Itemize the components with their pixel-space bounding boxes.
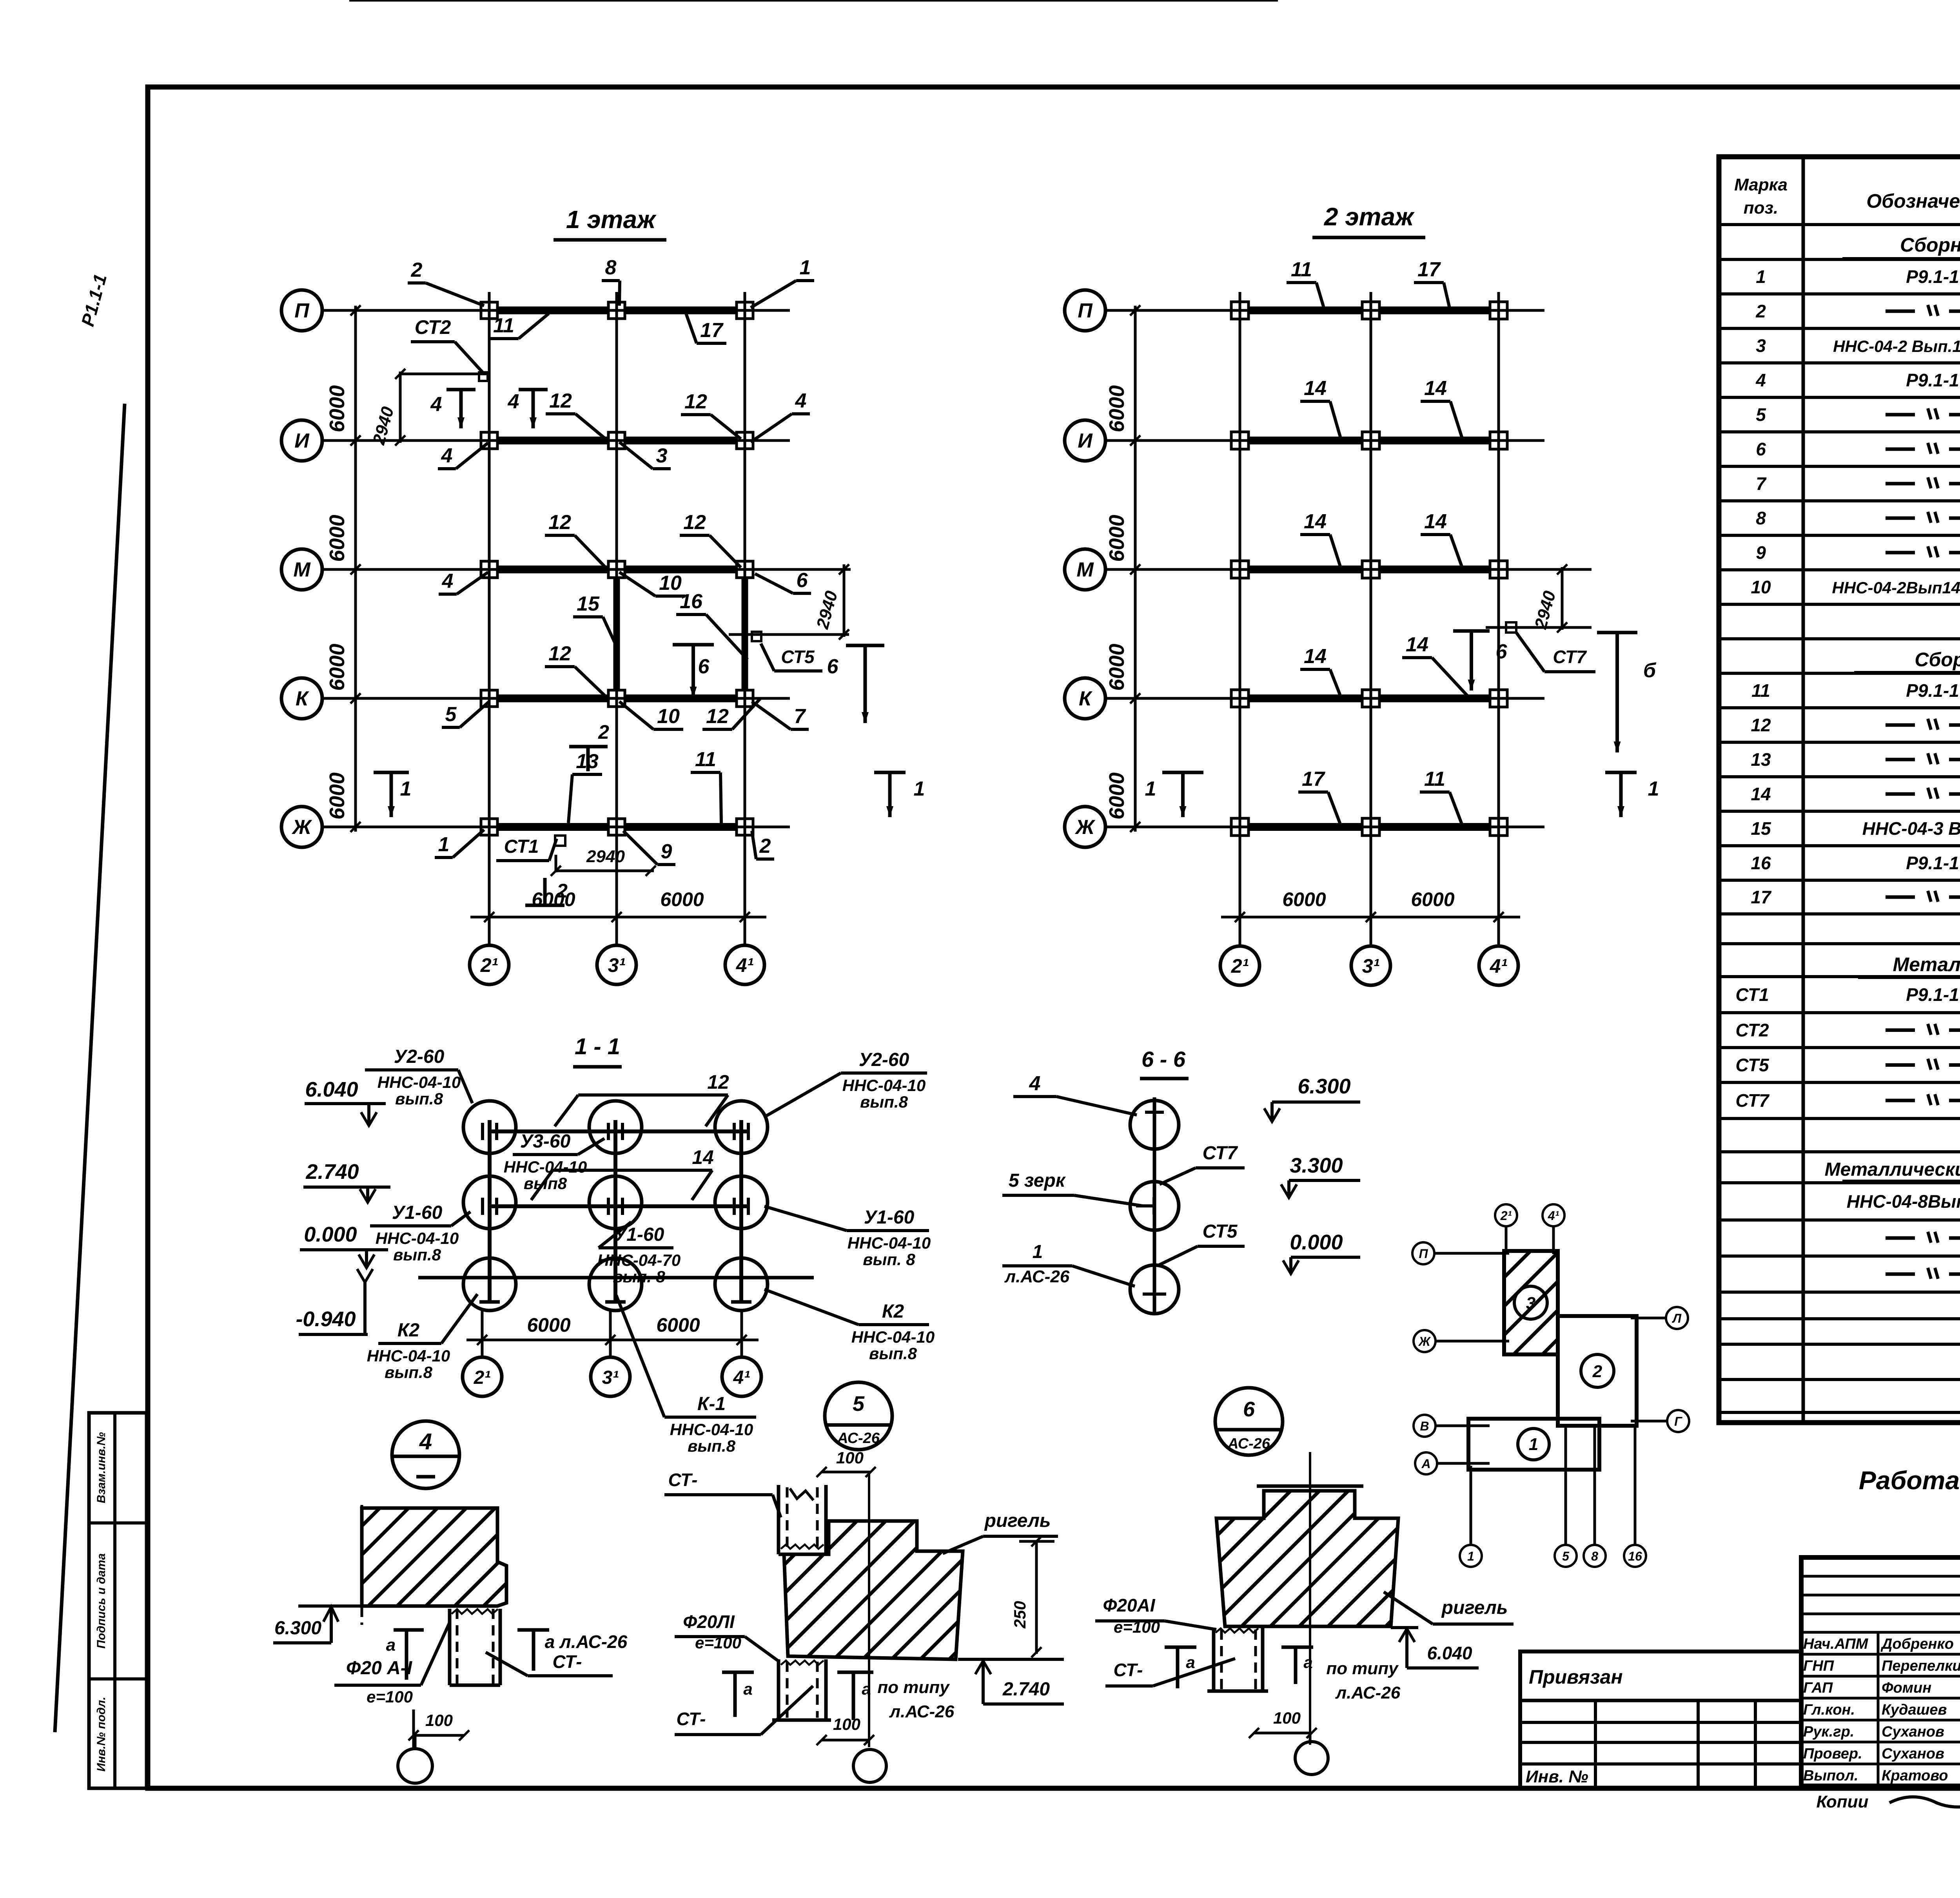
- svg-text:6000: 6000: [325, 644, 349, 691]
- beam mid level 1-1: [490, 1204, 748, 1208]
- svg-text:Инв.№ подл.: Инв.№ подл.: [95, 1697, 108, 1771]
- svg-text:11: 11: [695, 748, 716, 771]
- svg-text:1: 1: [1529, 1435, 1538, 1454]
- svg-text:15: 15: [1751, 818, 1771, 839]
- svg-text:12: 12: [1751, 715, 1771, 735]
- axis line П plan1: [322, 309, 790, 312]
- svg-text:ННС-04-3 Вып.7: ННС-04-3 Вып.7: [1862, 818, 1960, 839]
- svg-text:12: 12: [684, 390, 707, 413]
- svg-text:СТ2: СТ2: [1735, 1020, 1769, 1041]
- svg-text:Ж: Ж: [291, 816, 312, 839]
- svg-text:У3-60: У3-60: [520, 1131, 571, 1152]
- beam line plan1: [489, 823, 745, 831]
- table row line: [1719, 603, 1960, 606]
- axis circle П plan1: [281, 290, 322, 331]
- svg-text:Обозначение: Обозначение: [1866, 190, 1960, 212]
- svg-text:Добренко: Добренко: [1880, 1636, 1954, 1652]
- svg-text:10: 10: [659, 572, 682, 595]
- svg-text:2: 2: [598, 721, 609, 743]
- key plan axis А: [1415, 1452, 1437, 1474]
- title block names row: [1801, 1763, 1960, 1766]
- svg-text:Р9.1-1: Р9.1-1: [1906, 853, 1959, 873]
- svg-text:Взам.инв.№: Взам.инв.№: [95, 1432, 108, 1503]
- svg-text:ННС-04-10: ННС-04-10: [851, 1328, 935, 1346]
- svg-text:Нач.АПМ: Нач.АПМ: [1803, 1636, 1869, 1652]
- stoika ST7 square: [1506, 622, 1516, 633]
- table row line: [1719, 258, 1960, 261]
- svg-text:В: В: [1420, 1419, 1429, 1433]
- svg-text:У2-60: У2-60: [859, 1050, 909, 1070]
- table column line: [1802, 157, 1805, 1423]
- column plan1: [608, 561, 625, 578]
- svg-text:вып.8: вып.8: [385, 1363, 433, 1381]
- beam line plan1: [489, 437, 745, 444]
- svg-text:по типу: по типу: [877, 1678, 950, 1697]
- detail 5 bubble: [825, 1382, 892, 1450]
- beam line plan1: [489, 694, 745, 702]
- table row line: [1719, 706, 1960, 709]
- column plan1: [737, 690, 753, 707]
- beam 14 outline 1-1: [553, 1169, 712, 1172]
- svg-text:3¹: 3¹: [1362, 955, 1380, 977]
- title block names row: [1801, 1719, 1960, 1722]
- column plan2: [1490, 690, 1507, 707]
- svg-text:8: 8: [605, 256, 617, 279]
- table row line: [1719, 1254, 1960, 1258]
- svg-text:100: 100: [833, 1715, 860, 1733]
- svg-text:вып.8: вып.8: [395, 1089, 443, 1108]
- svg-text:14: 14: [1424, 377, 1447, 400]
- svg-text:11: 11: [1424, 768, 1445, 790]
- section cut mark 4: [519, 388, 548, 392]
- svg-text:Рук.гр.: Рук.гр.: [1803, 1724, 1854, 1740]
- svg-text:11: 11: [1291, 258, 1312, 281]
- svg-text:6 - 6: 6 - 6: [1142, 1047, 1186, 1071]
- svg-text:ННС-04-70: ННС-04-70: [597, 1251, 681, 1269]
- svg-text:6: 6: [827, 655, 839, 678]
- key plan axis 8: [1584, 1545, 1606, 1567]
- svg-text:а: а: [743, 1680, 752, 1698]
- key plan axis Ж: [1414, 1330, 1436, 1352]
- title block names row: [1801, 1575, 1960, 1578]
- svg-text:4: 4: [795, 390, 807, 412]
- column plan1: [608, 690, 625, 707]
- key plan block 2: [1558, 1316, 1637, 1426]
- svg-text:а: а: [862, 1680, 871, 1698]
- beam 12 outline 1-1: [578, 1093, 728, 1097]
- column section 1-1: [488, 1120, 492, 1302]
- svg-text:6000: 6000: [527, 1314, 570, 1336]
- svg-text:вып. 8: вып. 8: [613, 1267, 665, 1286]
- svg-text:13: 13: [1751, 749, 1771, 770]
- svg-text:1 - 1: 1 - 1: [575, 1034, 620, 1059]
- detail 6 bubble: [1215, 1388, 1283, 1455]
- axis line И plan2: [1105, 439, 1544, 442]
- svg-text:вып. 8: вып. 8: [863, 1250, 915, 1269]
- table row line: [1719, 499, 1960, 502]
- axis circle bottom plan2: [1220, 946, 1259, 985]
- svg-text:10: 10: [657, 705, 680, 728]
- svg-text:Привязан: Привязан: [1529, 1666, 1623, 1688]
- vertical beam 16 plan1: [742, 569, 748, 698]
- column axis line plan1: [615, 292, 618, 945]
- svg-text:12: 12: [707, 1071, 729, 1093]
- svg-text:Г: Г: [1674, 1414, 1682, 1428]
- svg-text:1: 1: [1145, 778, 1156, 800]
- column stub detail 6: [1212, 1628, 1216, 1691]
- axis circle bottom plan1: [597, 945, 636, 984]
- svg-text:12: 12: [548, 511, 571, 534]
- T mark a left detail 5: [722, 1671, 754, 1674]
- svg-text:6: 6: [698, 655, 710, 678]
- svg-text:6: 6: [1243, 1398, 1255, 1421]
- section cut mark б: [1597, 631, 1637, 634]
- svg-text:ННС-04-10: ННС-04-10: [376, 1229, 459, 1247]
- svg-text:5: 5: [1756, 404, 1766, 425]
- T mark a po tipu detail 5: [837, 1671, 873, 1674]
- svg-text:ННС-04-10: ННС-04-10: [670, 1420, 753, 1439]
- table row line: [1719, 327, 1960, 330]
- axis line Ж plan2: [1105, 826, 1544, 828]
- column plan1: [481, 819, 497, 835]
- section cut mark 1: [874, 771, 906, 774]
- svg-text:СТ-: СТ-: [1114, 1660, 1143, 1680]
- key plan block 3: [1504, 1251, 1558, 1354]
- svg-text:1: 1: [1033, 1242, 1043, 1262]
- svg-text:СТ1: СТ1: [1735, 984, 1769, 1005]
- dim line bottom plan1: [470, 916, 766, 919]
- table row line: [1719, 1218, 1960, 1222]
- table row line: [1719, 568, 1960, 571]
- svg-text:К2: К2: [397, 1320, 420, 1341]
- svg-text:4¹: 4¹: [1490, 955, 1508, 977]
- svg-text:4: 4: [441, 444, 453, 467]
- svg-text:Ф20ЛI: Ф20ЛI: [683, 1612, 735, 1632]
- svg-text:6000: 6000: [325, 772, 349, 819]
- column plan1: [737, 561, 753, 578]
- axis circle bottom plan1: [470, 945, 509, 984]
- svg-text:14: 14: [1304, 377, 1327, 400]
- beam line plan1: [489, 306, 745, 314]
- axis line М plan1: [322, 568, 851, 571]
- svg-text:л.АС-26: л.АС-26: [889, 1702, 955, 1721]
- T mark a.l.AS-26 detail 4: [517, 1628, 549, 1632]
- joint circle 6-6: [1130, 1182, 1179, 1230]
- dim 2940 top-left: [400, 373, 488, 375]
- axis circle bottom plan2: [1351, 946, 1390, 985]
- axis circle Ж plan2: [1065, 807, 1105, 847]
- column plan1: [608, 432, 625, 449]
- key plan axis 2&#185;: [1495, 1204, 1517, 1226]
- svg-text:6000: 6000: [325, 385, 349, 432]
- svg-text:ННС-04-10: ННС-04-10: [842, 1076, 926, 1095]
- svg-text:вып.8: вып.8: [688, 1437, 736, 1455]
- svg-text:3.300: 3.300: [1290, 1154, 1343, 1177]
- svg-text:б: б: [1643, 659, 1657, 682]
- joint circle 1-1: [715, 1101, 768, 1153]
- joint circle 1-1: [589, 1258, 642, 1311]
- key plan axis 4&#185;: [1543, 1204, 1564, 1226]
- axis circle М plan2: [1065, 549, 1105, 590]
- table row line: [1719, 292, 1960, 295]
- stamp boxes bottom-left: [89, 1413, 147, 1788]
- detail 6 rigel concrete: [1257, 1485, 1363, 1488]
- svg-text:2 этаж: 2 этаж: [1324, 203, 1415, 231]
- table row line: [1719, 912, 1960, 915]
- svg-text:вып8: вып8: [524, 1174, 567, 1193]
- svg-text:СТ5: СТ5: [1735, 1055, 1769, 1075]
- svg-text:4¹: 4¹: [736, 954, 754, 976]
- dim line vertical plan1: [354, 306, 357, 832]
- dim 2940 near ST1: [555, 855, 557, 872]
- svg-text:250: 250: [1011, 1601, 1029, 1629]
- column stub top detail 5: [777, 1485, 780, 1554]
- svg-text:Инв. №: Инв. №: [1526, 1767, 1588, 1786]
- svg-text:СТ7: СТ7: [1203, 1143, 1238, 1164]
- column plan2: [1490, 561, 1507, 578]
- svg-text:2: 2: [1592, 1362, 1602, 1381]
- svg-text:П: П: [1078, 299, 1093, 322]
- column plan2: [1362, 690, 1379, 707]
- svg-text:Р9.1-1: Р9.1-1: [1906, 680, 1959, 701]
- svg-text:14: 14: [1406, 633, 1428, 656]
- svg-text:100: 100: [1273, 1709, 1301, 1727]
- svg-text:9: 9: [661, 840, 672, 863]
- svg-text:0.000: 0.000: [1290, 1231, 1343, 1254]
- svg-text:по типу: по типу: [1326, 1659, 1399, 1678]
- svg-text:Перепелкин: Перепелкин: [1882, 1658, 1960, 1674]
- beam line plan2: [1240, 694, 1499, 702]
- svg-text:17: 17: [1302, 768, 1325, 790]
- svg-text:3: 3: [1756, 335, 1766, 356]
- key plan axis П: [1412, 1242, 1434, 1264]
- column axis line plan2: [1239, 292, 1241, 945]
- svg-text:11: 11: [1751, 680, 1770, 701]
- svg-text:1: 1: [1756, 266, 1766, 287]
- title block names row: [1801, 1653, 1960, 1656]
- axis circle bottom plan1: [725, 945, 764, 984]
- stoika ST5 square: [752, 632, 761, 641]
- cut mark 2 upper: [569, 745, 608, 749]
- svg-text:АС-26: АС-26: [1227, 1436, 1270, 1452]
- beam line plan2: [1240, 823, 1499, 831]
- table row line: [1719, 844, 1960, 847]
- key plan axis 16: [1624, 1545, 1646, 1567]
- table row line: [1719, 430, 1960, 433]
- key plan axis 5: [1555, 1545, 1577, 1567]
- title block names row: [1801, 1631, 1960, 1634]
- svg-text:СТ5: СТ5: [1203, 1221, 1238, 1242]
- svg-text:4: 4: [442, 570, 454, 593]
- svg-text:6000: 6000: [1105, 385, 1129, 432]
- svg-text:АС-26: АС-26: [837, 1430, 880, 1447]
- svg-text:А: А: [1421, 1457, 1430, 1471]
- joint circle 1-1: [715, 1258, 768, 1311]
- svg-text:Р9.1-1: Р9.1-1: [1906, 266, 1959, 287]
- section cut mark 4: [446, 388, 475, 392]
- svg-text:2.740: 2.740: [1002, 1679, 1050, 1700]
- svg-text:3¹: 3¹: [608, 954, 626, 976]
- svg-text:1: 1: [800, 256, 811, 279]
- title block names col: [1877, 1632, 1880, 1786]
- axis circle М plan1: [281, 549, 322, 590]
- column plan2: [1490, 818, 1507, 836]
- table row line: [1719, 1343, 1960, 1346]
- svg-text:7: 7: [794, 705, 806, 728]
- svg-text:3: 3: [656, 444, 668, 467]
- cut mark 2 lower: [525, 904, 564, 907]
- table row line: [1719, 879, 1960, 882]
- key plan axis Г: [1667, 1410, 1689, 1432]
- column axis line plan2: [1497, 292, 1500, 945]
- privyazan block: [1520, 1651, 1801, 1788]
- svg-text:100: 100: [425, 1711, 453, 1729]
- table row line: [1719, 1291, 1960, 1294]
- svg-text:Л: Л: [1672, 1311, 1682, 1325]
- svg-text:4: 4: [1029, 1072, 1041, 1095]
- svg-text:К2: К2: [882, 1301, 904, 1322]
- svg-text:1: 1: [400, 778, 412, 800]
- vertical beam 15 plan1: [613, 569, 620, 698]
- table row line: [1719, 672, 1960, 675]
- section cut mark 6: [846, 644, 884, 647]
- svg-text:СТ-: СТ-: [553, 1651, 582, 1672]
- svg-text:5: 5: [1562, 1549, 1570, 1563]
- svg-text:4: 4: [1755, 370, 1766, 390]
- svg-text:1: 1: [1467, 1549, 1474, 1563]
- joint circle 6-6: [1130, 1100, 1179, 1149]
- table row line: [1719, 361, 1960, 364]
- specification table frame: [1719, 157, 1960, 1423]
- svg-text:12: 12: [548, 642, 571, 665]
- svg-text:СТ-: СТ-: [677, 1709, 706, 1729]
- svg-text:14: 14: [1424, 510, 1447, 533]
- svg-text:12: 12: [706, 705, 729, 728]
- column plan1: [608, 302, 625, 319]
- column section 6-6: [1153, 1097, 1156, 1315]
- column below detail 4: [448, 1609, 452, 1685]
- column plan2: [1362, 561, 1379, 578]
- table row line: [1719, 810, 1960, 813]
- detail 5 rigel concrete: [784, 1521, 963, 1659]
- ground line 1-1: [418, 1276, 814, 1280]
- key plan axis Л: [1666, 1307, 1688, 1329]
- svg-text:6: 6: [797, 569, 808, 592]
- svg-text:1 этаж: 1 этаж: [566, 205, 657, 234]
- joint circle 1-1: [589, 1101, 642, 1153]
- svg-text:8: 8: [1756, 508, 1766, 528]
- svg-text:ННС-04-10: ННС-04-10: [504, 1158, 587, 1176]
- svg-text:6000: 6000: [656, 1314, 700, 1336]
- T mark a po tipu detail 6: [1281, 1646, 1313, 1649]
- svg-text:6.300: 6.300: [274, 1618, 321, 1639]
- svg-text:6: 6: [1496, 640, 1508, 663]
- svg-text:а: а: [1186, 1653, 1195, 1671]
- section cut mark 1: [374, 771, 409, 774]
- bubble bottom detail 6: [1309, 1733, 1312, 1742]
- svg-text:ННС-04-2Вып14 Часть 1: ННС-04-2Вып14 Часть 1: [1832, 578, 1960, 597]
- svg-text:6000: 6000: [660, 888, 704, 910]
- title block names row: [1801, 1613, 1960, 1615]
- key plan axis В: [1414, 1415, 1436, 1437]
- svg-text:Металлические монтажные дет: Металлические монтажные детали (кг): [1825, 1159, 1960, 1180]
- svg-text:2: 2: [556, 880, 568, 902]
- axis circle bottom plan2: [1479, 946, 1518, 985]
- column axis line plan1: [488, 292, 491, 945]
- axis circle К plan2: [1065, 678, 1105, 719]
- svg-text:ННС-04-10: ННС-04-10: [848, 1234, 931, 1252]
- column plan2: [1362, 432, 1379, 449]
- svg-text:К: К: [1079, 687, 1093, 710]
- table row line: [1719, 1150, 1960, 1153]
- svg-text:1: 1: [914, 778, 925, 800]
- column plan1: [608, 819, 625, 835]
- svg-text:л.АС-26: л.АС-26: [1004, 1267, 1070, 1286]
- stoika ST2 square: [479, 372, 488, 381]
- svg-text:1: 1: [1648, 778, 1659, 800]
- section cut mark 1: [1162, 771, 1203, 774]
- svg-text:4: 4: [419, 1429, 432, 1454]
- dim 2940 right plan1: [729, 633, 849, 636]
- svg-text:14: 14: [1751, 784, 1771, 804]
- svg-text:5 зерк: 5 зерк: [1009, 1170, 1066, 1191]
- svg-text:100: 100: [836, 1448, 864, 1467]
- table row line: [1719, 1011, 1960, 1014]
- detail 4 concrete slab: [362, 1508, 506, 1606]
- svg-text:СТ5: СТ5: [781, 647, 815, 667]
- svg-text:2940: 2940: [586, 847, 625, 866]
- beam line plan2: [1240, 437, 1499, 444]
- svg-text:Кудашев: Кудашев: [1882, 1702, 1947, 1718]
- column plan1: [481, 432, 497, 449]
- svg-text:4¹: 4¹: [733, 1367, 750, 1388]
- page edge scan line left: [55, 404, 125, 1732]
- column plan2: [1362, 302, 1379, 319]
- axis circle И plan2: [1065, 420, 1105, 461]
- section cut mark 6: [673, 643, 714, 647]
- svg-text:ГНП: ГНП: [1803, 1658, 1834, 1674]
- svg-text:вып.8: вып.8: [869, 1344, 917, 1363]
- svg-text:Металлические изделия (кг): Металлические изделия (кг): [1893, 954, 1960, 975]
- svg-text:3¹: 3¹: [602, 1367, 619, 1388]
- svg-text:П: П: [294, 299, 310, 322]
- bubble bottom detail 4: [414, 1735, 417, 1749]
- svg-text:6000: 6000: [1411, 888, 1454, 910]
- column plan2: [1362, 818, 1379, 836]
- table row line: [1719, 942, 1960, 945]
- T mark a detail 6: [1165, 1646, 1196, 1649]
- dim 2940 plan2: [1486, 626, 1592, 629]
- svg-text:16: 16: [680, 590, 703, 613]
- axis circle bottom 1-1: [591, 1357, 630, 1396]
- joint circle 1-1: [463, 1176, 516, 1229]
- column plan2: [1231, 818, 1249, 836]
- joint circle 1-1: [589, 1176, 642, 1229]
- table row line: [1719, 534, 1960, 537]
- svg-text:л.АС-26: л.АС-26: [1335, 1683, 1401, 1702]
- axis circle bottom 1-1: [722, 1357, 761, 1396]
- table row line: [1719, 1117, 1960, 1120]
- centerline detail 4: [361, 1505, 363, 1630]
- svg-text:Подпись и дата: Подпись и дата: [95, 1553, 108, 1648]
- table row line: [1719, 1411, 1960, 1414]
- svg-text:ННС-04-10: ННС-04-10: [367, 1347, 450, 1365]
- T mark a detail 4: [394, 1628, 424, 1632]
- axis circle П plan2: [1065, 290, 1105, 331]
- joint circle 6-6: [1130, 1265, 1179, 1314]
- svg-text:Провер.: Провер.: [1803, 1746, 1862, 1762]
- svg-text:2¹: 2¹: [1500, 1209, 1512, 1223]
